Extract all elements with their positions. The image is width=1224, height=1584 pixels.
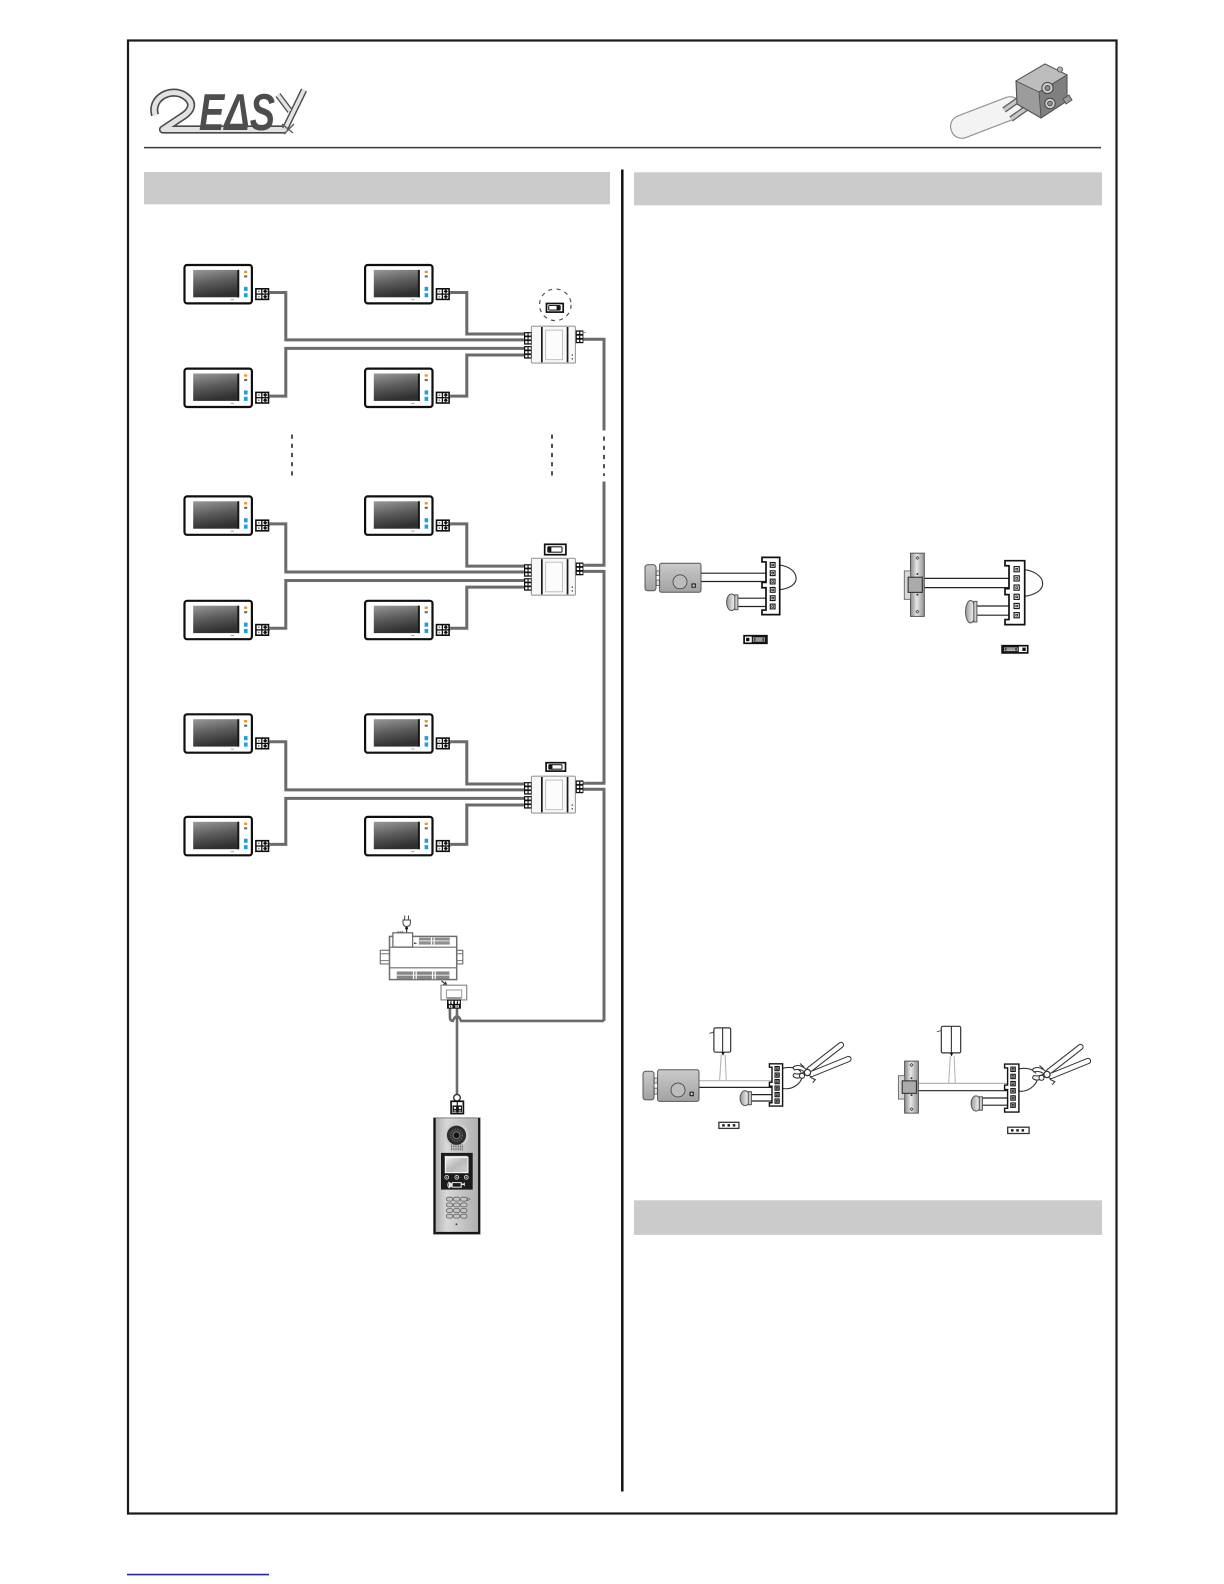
wire from monitor M10 to distributor xyxy=(450,742,525,784)
junction box terminal block xyxy=(447,1000,461,1009)
header rule xyxy=(144,147,1101,149)
monitor M3 xyxy=(185,369,252,407)
wire from monitor M12 to distributor xyxy=(450,805,525,844)
door station horn icon xyxy=(448,1182,465,1189)
riser trunk wire D2 to D3 xyxy=(583,571,604,783)
adapter PA2 output wires xyxy=(949,1056,956,1083)
door release button B2 xyxy=(966,601,977,623)
door station call buttons xyxy=(445,1175,468,1179)
wire lock L3 plus to connector pin 3 xyxy=(698,1080,776,1082)
DIP switch icon S2 xyxy=(545,544,566,554)
svg-text:EΔS: EΔS xyxy=(199,84,275,142)
monitor M9 xyxy=(185,714,252,752)
DIP switch icon S3 xyxy=(546,763,565,771)
terminal block of monitor M2 xyxy=(437,289,451,300)
riser trunk wire D3 down to junction xyxy=(583,789,604,1021)
wire from monitor M11 to distributor xyxy=(269,798,524,844)
wires button B3 to connector pins 5,6 xyxy=(748,1095,776,1101)
3-way jumper icon J1 xyxy=(719,1122,739,1128)
door station terminal connector xyxy=(451,1101,463,1113)
input terminals of distributor D1 xyxy=(524,332,532,359)
slide switch icon SW-L2 xyxy=(1002,646,1028,653)
input terminals of distributor D2 xyxy=(524,564,532,591)
6-pin terminal connector K3 xyxy=(769,1064,782,1106)
dashed highlight circle around DIP switch xyxy=(540,289,572,321)
input terminals of distributor D3 xyxy=(524,782,532,809)
wire lock L3 minus to connector pin 4 xyxy=(698,1086,776,1088)
page border frame xyxy=(128,41,1117,1514)
wires button B2 to connector pins 5,6 xyxy=(976,606,1013,615)
continuation dashes left column xyxy=(291,435,293,477)
electric strike lock L4 xyxy=(898,1061,918,1113)
door station connector loop xyxy=(454,1094,461,1101)
monitor M6 xyxy=(365,496,432,534)
terminal block of monitor M10 xyxy=(437,738,451,749)
monitor M10 xyxy=(365,714,432,752)
riser trunk wire into distributor D2 xyxy=(583,482,604,566)
wires button B4 to connector pins 5,6 xyxy=(980,1098,1011,1105)
wire strike L4 minus to connector pin 4 xyxy=(916,1090,1011,1092)
lower-right section header bar xyxy=(634,1200,1102,1235)
monitor M12 xyxy=(365,817,432,855)
terminal block of monitor M9 xyxy=(256,738,270,749)
6-pin terminal connector K2 xyxy=(1005,561,1025,625)
terminal block of monitor M11 xyxy=(256,841,270,852)
monitor M11 xyxy=(185,817,252,855)
AC plug symbol xyxy=(403,916,410,927)
6-pin terminal connector K1 xyxy=(762,557,780,614)
left section header bar xyxy=(144,172,610,204)
electric strike lock L2 xyxy=(904,553,924,616)
2EASY logo xyxy=(154,84,304,142)
wire from monitor M4 to distributor xyxy=(450,355,525,396)
wires lock L1 to connector pins 2,3 xyxy=(700,573,771,581)
distributor D1 xyxy=(531,326,575,363)
door release button B3 xyxy=(740,1091,751,1106)
output terminal of distributor D1 xyxy=(576,330,586,343)
wire plug to power supply xyxy=(406,927,408,937)
monitor M8 xyxy=(365,601,432,639)
jumper arc on connector K2 xyxy=(1021,569,1043,597)
wire from monitor M3 to distributor xyxy=(269,348,524,396)
monitor M1 xyxy=(185,265,252,303)
continuation dashes middle column xyxy=(551,435,553,477)
wire from monitor M1 to distributor xyxy=(269,293,524,340)
terminal block of monitor M1 xyxy=(256,289,270,300)
wire junction terminal to door station xyxy=(456,1009,459,1095)
bus wire from junction terminal with hop xyxy=(450,1009,604,1021)
slide switch icon SW-L1 xyxy=(744,636,767,644)
terminal block of monitor M6 xyxy=(437,520,451,531)
riser continuation dashes xyxy=(603,437,605,477)
adapter PA1 output wires xyxy=(720,1055,727,1081)
wires button B1 to connector pins 5,6 xyxy=(737,598,771,606)
pointer arrow to junction box xyxy=(442,981,447,986)
electric rim lock L3 xyxy=(643,1070,699,1102)
terminal block of monitor M5 xyxy=(256,520,270,531)
monitor M4 xyxy=(365,369,432,407)
footer link line xyxy=(127,1574,269,1576)
DIN-rail power supply unit xyxy=(380,932,463,980)
2-wire plug illustration xyxy=(947,64,1072,141)
door release button B1 xyxy=(727,594,738,611)
distributor D2 xyxy=(531,558,575,595)
wire from monitor M2 to distributor xyxy=(450,293,525,335)
monitor M7 xyxy=(185,601,252,639)
terminal block of monitor M8 xyxy=(437,625,451,636)
right section header bar xyxy=(634,172,1102,205)
cutting pliers PL2 xyxy=(1033,1047,1088,1085)
riser trunk wire from distributor D1 down xyxy=(583,339,604,430)
output terminal of distributor D2 xyxy=(576,563,586,576)
monitor M2 xyxy=(365,265,432,303)
terminal block of monitor M7 xyxy=(256,625,270,636)
wire from monitor M8 to distributor xyxy=(450,587,525,628)
wires strike lock L2 to connector pins 2,3 xyxy=(923,578,1013,587)
DIP switch icon S1 xyxy=(547,304,564,313)
terminal block of monitor M3 xyxy=(256,392,270,403)
wire strike L4 plus to connector pin 3 xyxy=(916,1082,1011,1084)
column divider line xyxy=(621,170,624,1492)
cut jumper arcs at connector K3 xyxy=(781,1067,801,1072)
cut jumper arcs at connector K4 xyxy=(1017,1068,1037,1073)
terminal block of monitor M12 xyxy=(437,841,451,852)
door station mic hole xyxy=(456,1223,458,1225)
door station display module xyxy=(441,1153,473,1190)
jumper arc on connector K1 xyxy=(778,565,797,590)
monitor M5 xyxy=(185,496,252,534)
door release button B4 xyxy=(971,1096,982,1111)
door station speaker grille xyxy=(451,1145,463,1151)
terminal block of monitor M4 xyxy=(437,392,451,403)
junction adaptor box xyxy=(441,985,467,1000)
distributor D3 xyxy=(531,776,575,813)
cutting pliers PL1 xyxy=(793,1045,848,1083)
door station keypad xyxy=(446,1197,470,1218)
wire from monitor M7 to distributor xyxy=(269,581,524,629)
electric rim lock L1 xyxy=(645,563,701,592)
wire from monitor M9 to distributor xyxy=(269,742,524,790)
3-way jumper icon J2 xyxy=(1008,1127,1029,1133)
6-pin terminal connector K4 xyxy=(1005,1064,1019,1112)
door station panel xyxy=(434,1118,481,1234)
power adapter PA2 xyxy=(937,1026,961,1056)
wire from monitor M6 to distributor xyxy=(450,524,525,566)
wire from monitor M5 to distributor xyxy=(269,524,524,572)
power adapter PA1 xyxy=(709,1028,730,1056)
door station camera xyxy=(444,1123,469,1148)
output terminal of distributor D3 xyxy=(576,780,586,793)
